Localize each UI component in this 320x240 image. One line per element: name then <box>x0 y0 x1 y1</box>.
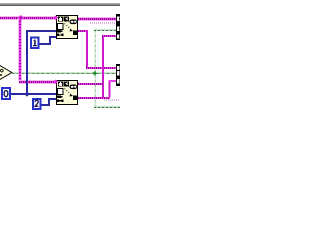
structure top border (gray bar) <box>0 3 120 6</box>
wire-end diamond at node U1 input <box>53 16 58 21</box>
wire: navy horizontal into node U1 y30 x26-56 <box>26 30 56 32</box>
wire: boolean green horizontal y29 x94-116 (into node U3) <box>94 29 116 31</box>
wire: pink horizontal x102-116 y35 (into node U3 lower input) <box>102 35 116 37</box>
wire: pink horizontal x109-116 y80 (into right node U4 input3) <box>109 80 117 82</box>
function node U2 (bottom middle) <box>57 81 78 105</box>
wire: navy from 1-const y43 x38-50, up, into node U1 y36 <box>38 36 56 45</box>
function node U1 (top middle) <box>57 16 78 39</box>
wire: boolean green vertical x94 y29-107 <box>94 30 96 107</box>
faint wire shadow bottom right y99 <box>104 99 120 101</box>
node U4 sliver (right middle edge) <box>116 64 120 86</box>
wire: navy from 2-const y104 x40-48, up, into node U2 y98 <box>40 98 56 106</box>
wire: pink horizontal node U2 out2 y97 x78-110 <box>78 97 110 99</box>
junction dot green (94.5,73) <box>92 71 97 76</box>
wire: pink horizontal node U2 out1 y83 x78-103 <box>78 83 103 85</box>
numeric constant 2 <box>33 99 41 109</box>
numeric constant 0 <box>2 88 10 99</box>
wire: pink horizontal x86-116 y67 (into right node U4) <box>86 67 116 69</box>
wire: pink vertical x86 y30-68 <box>86 30 88 68</box>
wire-end diamond at node U2 input <box>53 80 58 85</box>
wire: pink vertical x102 y36-98 <box>102 36 104 98</box>
wire: pink vertical x109 y81-97 <box>109 81 111 97</box>
faint wire shadow right of node U3 y22 <box>90 22 116 24</box>
junction dot navy (27,94) <box>24 91 29 96</box>
node U3 sliver (top right edge) <box>116 14 120 40</box>
wire: pink dashed horizontal top right (node U1 to node U3) y18 x78-116 <box>78 17 116 21</box>
wire: pink dashed horizontal into node U2 y81 x19-56 <box>19 80 56 84</box>
wire: boolean green horizontal y106 x94-120 (exits right) <box>94 106 120 108</box>
junction dot pink (20,18) <box>18 15 23 20</box>
wire: boolean green horizontal y72 x12-116 <box>12 72 116 74</box>
wire: navy horizontal from 0-const y93 x10-56 <box>10 93 56 95</box>
wire: pink dashed horizontal top left (into node U1) y17 x0-56 <box>0 16 56 20</box>
wire: pink stub node U1 right lower output y30 x78-88 <box>78 30 88 32</box>
wire: pink dashed vertical left x19 y18-81 <box>18 18 22 81</box>
wire: navy vertical x26 y31-94 <box>26 31 28 94</box>
comparison triangle node (cut at left edge) <box>0 64 12 80</box>
numeric constant 1 <box>31 38 39 49</box>
